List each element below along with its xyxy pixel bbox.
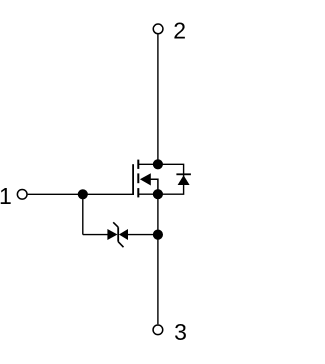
svg-text:3: 3 <box>174 319 187 345</box>
svg-text:1: 1 <box>0 183 12 209</box>
svg-text:2: 2 <box>173 18 186 44</box>
